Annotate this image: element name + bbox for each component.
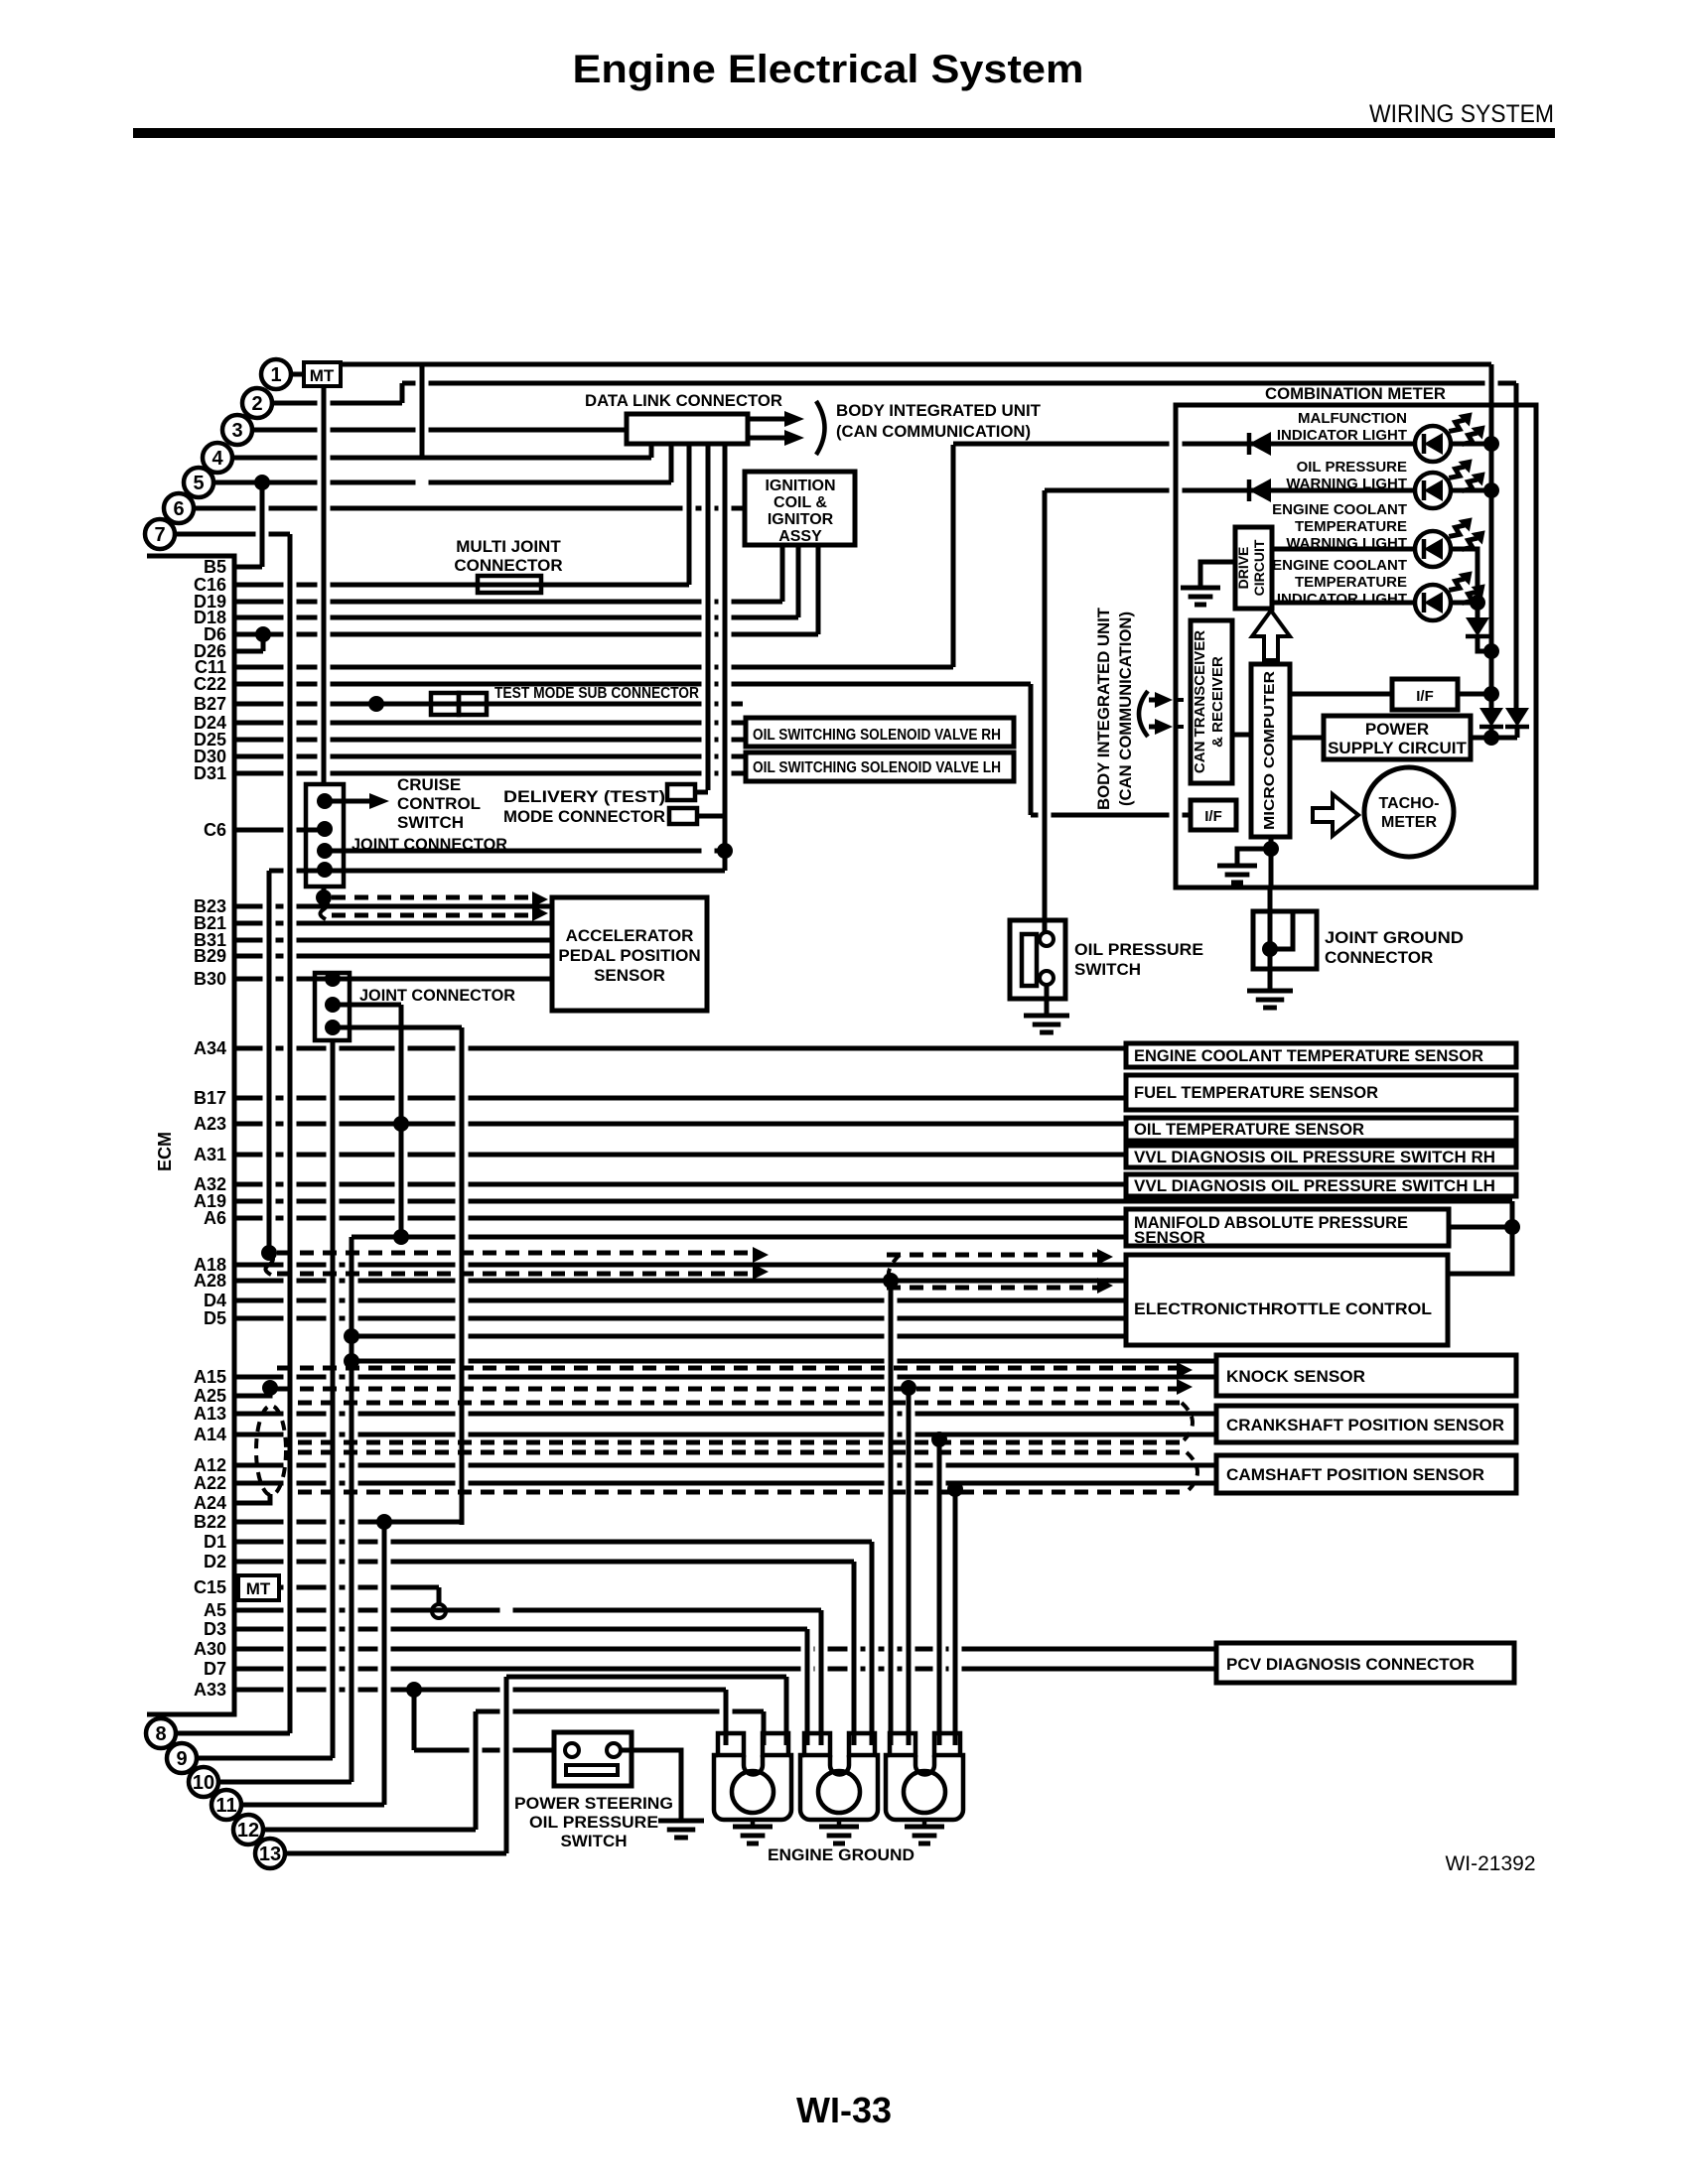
node junction joint ground: [1262, 941, 1278, 957]
wire joint ground feed: [1268, 887, 1273, 949]
svg-text:PEDAL POSITION: PEDAL POSITION: [558, 946, 700, 965]
arrow DLC-BIU 2: [784, 430, 804, 446]
wire circle2 riser: [400, 383, 405, 403]
ground engine ground connector 1 ground: [733, 1827, 773, 1843]
wire D31: [234, 771, 746, 776]
wire meter bus mid: [1489, 444, 1494, 705]
wire malfunction light wire: [953, 442, 1415, 447]
svg-text:DELIVERY (TEST): DELIVERY (TEST): [503, 787, 665, 806]
wire D18: [234, 615, 798, 620]
svg-text:A5: A5: [204, 1600, 226, 1620]
svg-text:ELECTRONICTHROTTLE CONTROL: ELECTRONICTHROTTLE CONTROL: [1134, 1299, 1432, 1318]
svg-text:D3: D3: [204, 1619, 226, 1639]
svg-text:VVL DIAGNOSIS OIL PRESSURE SWI: VVL DIAGNOSIS OIL PRESSURE SWITCH RH: [1134, 1148, 1495, 1166]
engine ground connector 3: [886, 1733, 963, 1820]
wire bus B22 to circle11: [382, 1522, 387, 1805]
wire D1: [234, 1540, 872, 1545]
wire cam shield drain: [953, 1489, 958, 1745]
delivery mode connector pin 2: [669, 808, 697, 824]
arrow ETC shield top: [1097, 1249, 1113, 1265]
wire A22: [234, 1481, 1216, 1486]
engine ground connector 2: [800, 1733, 878, 1820]
delivery mode connector pin 1: [667, 784, 695, 800]
arrow knock shield top: [1177, 1362, 1193, 1378]
svg-text:SENSOR: SENSOR: [594, 966, 665, 985]
wire ect led riser: [1476, 594, 1480, 617]
wire wire circle 9: [197, 1756, 333, 1761]
svg-text:IGNITION: IGNITION: [765, 478, 835, 494]
hollow arrow to tachometer: [1313, 794, 1358, 836]
svg-text:BODY INTEGRATED UNIT: BODY INTEGRATED UNIT: [1094, 607, 1113, 810]
wire B30: [234, 977, 552, 982]
wire drive circuit ground leg: [1200, 562, 1235, 588]
wire bus2 diode stub: [1515, 708, 1520, 710]
node knock shield drain node: [901, 1380, 916, 1396]
wire A25 shield hook: [266, 1389, 270, 1396]
manifold absolute pressure sensor: [1126, 1209, 1449, 1246]
wire D6: [234, 632, 818, 637]
wire A24 shield hook: [266, 1494, 270, 1503]
wire CAN stub 1: [1176, 698, 1191, 702]
wire circle1-MT stub: [291, 372, 304, 377]
wire ect diode to bus: [1477, 638, 1491, 651]
oil switching solenoid valve LH: [746, 752, 1014, 781]
wire A12: [234, 1463, 1216, 1468]
svg-text:A6: A6: [204, 1208, 226, 1228]
node junction meter bus 1: [1483, 436, 1499, 452]
wire DLC pin b: [687, 444, 692, 585]
svg-text:A34: A34: [194, 1038, 226, 1058]
node ps switch terminal 1 (open): [565, 1743, 579, 1757]
wire D1 drop: [870, 1542, 875, 1745]
node junction meter bus 2: [1483, 482, 1499, 498]
svg-text:C6: C6: [204, 820, 226, 840]
node junction A23: [393, 1116, 409, 1132]
wire circle4 riser: [420, 364, 425, 458]
svg-text:SWITCH: SWITCH: [560, 1832, 627, 1850]
wire wire circle 10: [218, 1780, 352, 1785]
svg-text:D5: D5: [204, 1308, 226, 1328]
wire A14: [234, 1433, 1216, 1437]
ground engine ground connector 3 ground: [905, 1827, 944, 1843]
svg-text:MT: MT: [310, 366, 335, 385]
svg-text:CAN TRANSCEIVER: CAN TRANSCEIVER: [1192, 630, 1208, 773]
arrow CAN 2: [1155, 719, 1173, 735]
svg-text:Engine Electrical System: Engine Electrical System: [573, 48, 1084, 91]
fuel temperature sensor: [1126, 1075, 1516, 1110]
arrow B23 shield bottom end: [532, 905, 548, 921]
wire A15: [234, 1375, 1216, 1380]
wire A13: [234, 1412, 1216, 1417]
wire D3 drop: [805, 1629, 810, 1745]
wire D25: [234, 738, 746, 743]
wire wire circle 11: [241, 1803, 384, 1808]
ground engine ground connector 2 ground: [819, 1827, 859, 1843]
svg-text:POWER STEERING: POWER STEERING: [514, 1794, 673, 1813]
header rule: [133, 128, 1555, 138]
arrow to cruise control switch: [369, 793, 389, 809]
svg-text:PCV DIAGNOSIS CONNECTOR: PCV DIAGNOSIS CONNECTOR: [1226, 1655, 1475, 1674]
node JC2 dot 2: [325, 997, 341, 1013]
accelerator pedal position sensor: [552, 897, 707, 1011]
svg-text:A22: A22: [194, 1473, 226, 1493]
svg-text:OIL SWITCHING SOLENOID VALVE R: OIL SWITCHING SOLENOID VALVE RH: [753, 727, 1001, 744]
node connector 4: [203, 443, 232, 473]
VVL diagnosis oil pressure switch RH: [1126, 1146, 1516, 1167]
wire A31: [234, 1153, 1126, 1158]
wire bus JC1 dot3 left leg: [267, 871, 272, 1253]
wire CAN stub 2: [1176, 725, 1191, 729]
wire JC2 dot3 wire: [333, 1025, 462, 1030]
wire A5 drop: [819, 1610, 824, 1745]
wire ect warning wire: [1272, 547, 1415, 552]
BIU bracket arc: [816, 401, 825, 455]
wire wire ETC aux: [352, 1334, 1126, 1339]
oil temperature sensor: [1126, 1118, 1516, 1141]
joint connector 1: [306, 784, 344, 887]
wire D5: [234, 1316, 1126, 1321]
wire power steering feed: [414, 1748, 556, 1753]
wire JC2 dot2 wire: [333, 1003, 401, 1008]
wire JC1 dot2 wire: [325, 849, 725, 854]
wire ETC shield top (shield dash): [887, 1253, 1097, 1258]
wire oil pressure warning wire: [1045, 488, 1415, 493]
node junction B5/circle5: [254, 475, 270, 490]
svg-text:WI-21392: WI-21392: [1445, 1852, 1535, 1875]
svg-text:OIL PRESSURE: OIL PRESSURE: [1074, 940, 1203, 959]
wire power supply to bus: [1471, 736, 1517, 741]
wire A28: [234, 1279, 1126, 1284]
wire D2 drop: [852, 1562, 857, 1745]
node junction delivery riser: [717, 843, 733, 859]
svg-text:CRUISE: CRUISE: [397, 775, 461, 794]
svg-text:KNOCK SENSOR: KNOCK SENSOR: [1226, 1367, 1365, 1386]
svg-text:A25: A25: [194, 1386, 226, 1406]
wire joint ground lower leg: [1268, 949, 1273, 991]
wire wire to MAP pin2: [352, 1235, 1126, 1240]
combination meter: [1176, 405, 1536, 887]
wire B21: [234, 921, 552, 926]
svg-text:CIRCUIT: CIRCUIT: [1251, 539, 1267, 596]
svg-text:ECM: ECM: [155, 1132, 175, 1171]
ps switch contact bar: [566, 1765, 618, 1775]
wire bus1 diode stub: [1489, 694, 1494, 708]
diode meter diode 5: [1505, 708, 1529, 727]
wire crank shield drain: [937, 1439, 942, 1745]
svg-text:7: 7: [154, 524, 165, 546]
svg-text:OIL PRESSURE: OIL PRESSURE: [1297, 459, 1407, 476]
svg-text:MT: MT: [246, 1579, 271, 1598]
node JC1 dot 2: [317, 821, 333, 837]
svg-text:A31: A31: [194, 1145, 226, 1164]
svg-text:CONTROL: CONTROL: [397, 794, 481, 813]
wire top bus 1 (MT to meter): [341, 362, 1491, 367]
wire bus JC2 to circle9: [331, 1040, 336, 1758]
wire DLC pin a1: [649, 444, 654, 458]
LED engine coolant temperature indicator light: [1415, 566, 1490, 620]
wire C22: [234, 682, 1031, 687]
svg-text:4: 4: [211, 448, 223, 470]
wire A30: [234, 1647, 1216, 1652]
wire wire circle 8: [176, 1731, 290, 1736]
node junction meter bus 4: [1483, 686, 1499, 702]
oil pressure switch: [1010, 920, 1065, 999]
MT connector (bottom): [238, 1575, 279, 1600]
wire D2: [234, 1560, 854, 1565]
svg-text:SENSOR: SENSOR: [1134, 1228, 1205, 1247]
wire CAN to micro stub: [1232, 733, 1251, 738]
svg-text:12: 12: [237, 1820, 259, 1842]
wire CAN arrow stub 1: [1149, 698, 1155, 703]
node connector 13: [255, 1839, 285, 1868]
node junction MAP wire: [393, 1229, 409, 1245]
wire ect indicator wire: [1272, 601, 1415, 606]
svg-text:ACCELERATOR: ACCELERATOR: [566, 926, 694, 945]
wire wire circle 12: [263, 1828, 476, 1833]
svg-text:10: 10: [193, 1772, 214, 1794]
camshaft position sensor: [1216, 1455, 1516, 1493]
wire A18 shield top (shield dash): [277, 1251, 753, 1256]
wire wire circle 3: [252, 428, 627, 433]
wire C11: [234, 665, 953, 670]
cam shield right arc: [1187, 1452, 1197, 1492]
wire A25: [234, 1394, 266, 1399]
svg-text:COIL &: COIL &: [774, 494, 827, 511]
LED malfunction indicator light: [1415, 407, 1490, 462]
svg-text:JOINT GROUND: JOINT GROUND: [1325, 928, 1464, 947]
wire crank shield bottom (shield dash): [298, 1440, 1182, 1445]
svg-text:BODY INTEGRATED UNIT: BODY INTEGRATED UNIT: [836, 401, 1042, 420]
LED oil pressure warning light: [1415, 454, 1490, 508]
wire ETC shield bottom (shield dash): [887, 1286, 1097, 1291]
svg-text:ENGINE COOLANT TEMPERATURE SEN: ENGINE COOLANT TEMPERATURE SENSOR: [1134, 1046, 1483, 1065]
node JC1 dot 4: [317, 862, 333, 878]
data link connector: [627, 414, 748, 444]
wire wire circle 2: [272, 401, 402, 406]
wire top bus 2 (circle2 to meter): [402, 381, 1516, 386]
wire A33: [234, 1688, 726, 1693]
svg-text:8: 8: [155, 1723, 166, 1745]
knock sensor: [1216, 1355, 1516, 1396]
wire meter bus 656-699: [1489, 651, 1494, 694]
node cam shield drain node: [947, 1481, 963, 1497]
wire wire circle 6: [194, 506, 745, 511]
crankshaft position sensor: [1216, 1406, 1516, 1442]
svg-text:POWER: POWER: [1365, 720, 1429, 739]
svg-text:1: 1: [270, 364, 281, 386]
svg-text:A12: A12: [194, 1455, 226, 1475]
wire ignition pin 1: [780, 545, 785, 602]
svg-text:D2: D2: [204, 1552, 226, 1571]
svg-text:D1: D1: [204, 1532, 226, 1552]
wire DLC pin d: [723, 444, 728, 871]
wire joint ground hook: [1270, 911, 1293, 949]
svg-text:A23: A23: [194, 1114, 226, 1134]
wire D19: [234, 600, 782, 605]
engine ground connector 1: [714, 1733, 791, 1820]
BIU CAN bracket arc: [1139, 691, 1148, 737]
wire bus circle7-circle8: [288, 534, 293, 1733]
node A25 shield node: [262, 1380, 278, 1396]
wire meter feed riser 2: [1514, 383, 1519, 710]
node junction B27: [368, 696, 384, 712]
svg-text:(CAN COMMUNICATION): (CAN COMMUNICATION): [1116, 612, 1135, 806]
wire circle 13 jog: [506, 1675, 786, 1680]
wire B22: [234, 1520, 462, 1525]
wire wire knock aux: [352, 1359, 1216, 1364]
svg-text:SWITCH: SWITCH: [1074, 960, 1141, 979]
node connector 7: [145, 519, 175, 549]
I/F (left): [1191, 800, 1236, 830]
svg-text:A33: A33: [194, 1680, 226, 1700]
svg-text:A30: A30: [194, 1639, 226, 1659]
svg-text:JOINT CONNECTOR: JOINT CONNECTOR: [359, 986, 515, 1005]
wire C15 to MT: [234, 1585, 238, 1590]
node crank shield drain node: [931, 1432, 947, 1447]
wire D7: [234, 1667, 1216, 1672]
wire A18 shield bottom (shield dash): [277, 1272, 753, 1277]
wire malfunction light wire right: [1451, 442, 1491, 447]
wire DLC to BIU arrow 2: [748, 436, 784, 441]
MT connector (top): [304, 362, 341, 386]
svg-text:METER: METER: [1381, 814, 1437, 831]
svg-text:TACHO-: TACHO-: [1378, 795, 1439, 812]
wire A24: [234, 1501, 266, 1506]
wire B5: [234, 565, 262, 570]
wire cam shield bottom (shield dash): [298, 1490, 1187, 1495]
wire A6: [234, 1216, 1126, 1221]
svg-text:B30: B30: [194, 969, 226, 989]
svg-text:B17: B17: [194, 1088, 226, 1108]
svg-text:ENGINE GROUND: ENGINE GROUND: [768, 1845, 914, 1864]
crank shield right arc: [1182, 1403, 1193, 1442]
joint ground connector: [1253, 911, 1317, 969]
node connector 1: [261, 359, 291, 389]
wire wire circle 7: [175, 532, 290, 537]
svg-text:TEMPERATURE: TEMPERATURE: [1295, 518, 1407, 535]
wire bus JC2 bottom to B22 end: [460, 1027, 465, 1525]
wire C11 riser to meter: [951, 445, 956, 667]
node connector 11: [211, 1790, 241, 1820]
svg-text:TEST MODE SUB CONNECTOR: TEST MODE SUB CONNECTOR: [494, 685, 699, 702]
wire knock shield drain: [907, 1388, 912, 1745]
wire micro to power supply: [1290, 736, 1324, 741]
wire B23 shield bottom (shield dash): [332, 913, 532, 918]
svg-text:CONNECTOR: CONNECTOR: [454, 556, 562, 575]
PCV diagnosis connector: [1216, 1643, 1514, 1683]
wire wire circle 4: [232, 456, 651, 461]
wire bus JC1 center: [322, 887, 327, 889]
svg-text:D4: D4: [204, 1291, 226, 1310]
test mode sub connector cell 1: [431, 693, 459, 715]
wire meter internal ground leg: [1237, 849, 1271, 866]
node junction A28 shield drain: [883, 1273, 899, 1289]
node junction B22: [376, 1514, 392, 1530]
wire D30: [234, 754, 746, 759]
svg-text:B22: B22: [194, 1512, 226, 1532]
wire cam shield top (shield dash): [298, 1450, 1187, 1455]
wire A34: [234, 1046, 1126, 1051]
svg-text:B5: B5: [204, 557, 226, 577]
diode meter diode 3: [1466, 617, 1489, 636]
arrow A18 shield top: [753, 1247, 769, 1263]
node connector 3: [222, 415, 252, 445]
node junction meter bus 3: [1483, 643, 1499, 659]
wire wire circle 13: [285, 1851, 506, 1856]
oil switching solenoid valve RH: [746, 718, 1014, 747]
svg-text:13: 13: [259, 1843, 281, 1865]
svg-text:I/F: I/F: [1204, 808, 1222, 825]
svg-text:11: 11: [215, 1795, 236, 1817]
wire D24: [234, 721, 746, 726]
node JC1 dot 3: [317, 843, 333, 859]
wire oil pressure switch riser: [1043, 490, 1048, 934]
node connector 10: [189, 1767, 218, 1797]
ground power steering ground: [658, 1821, 704, 1838]
wire engine ground connector 2 ground stem: [837, 1820, 842, 1827]
node junction D6/D26: [255, 626, 271, 642]
svg-text:A15: A15: [194, 1367, 226, 1387]
svg-text:A28: A28: [194, 1271, 226, 1291]
wire C6: [234, 828, 325, 833]
node junction A19/MAP: [1504, 1219, 1520, 1235]
svg-text:B29: B29: [194, 946, 226, 966]
node A18 shield node: [261, 1245, 277, 1261]
ground joint ground: [1247, 991, 1293, 1008]
engine coolant temperature sensor: [1126, 1043, 1516, 1067]
wire C15: [279, 1585, 439, 1590]
svg-text:OIL PRESSURE: OIL PRESSURE: [529, 1813, 658, 1832]
wire power steering feed riser: [412, 1690, 417, 1750]
svg-text:A24: A24: [194, 1493, 226, 1513]
oil pressure switch contact bar: [1022, 934, 1037, 986]
wire ps switch ground leg: [621, 1750, 681, 1821]
arrow ETC shield bottom: [1097, 1278, 1113, 1294]
svg-text:FUEL TEMPERATURE SENSOR: FUEL TEMPERATURE SENSOR: [1134, 1083, 1378, 1102]
wire delivery pin2 stub: [697, 814, 725, 819]
ETC shield left arc: [889, 1255, 900, 1281]
node junction micro ground: [1263, 841, 1279, 857]
diode meter diode 4: [1479, 708, 1503, 727]
node oil pressure switch terminal 1 (open): [1040, 932, 1054, 946]
wire A32: [234, 1182, 1126, 1187]
wire circle 12 riser: [474, 1711, 479, 1830]
node JC1 dot 1: [317, 793, 333, 809]
svg-text:D31: D31: [194, 763, 226, 783]
wire bus JC2 mid: [399, 1005, 404, 1237]
power supply circuit: [1324, 716, 1471, 759]
wire C16: [234, 583, 689, 588]
svg-text:3: 3: [231, 420, 242, 442]
diode meter diode 2: [1249, 478, 1271, 502]
svg-text:5: 5: [193, 473, 204, 494]
wire C15 drop: [437, 1587, 442, 1604]
svg-text:MULTI JOINT: MULTI JOINT: [456, 537, 561, 556]
wire circle 13 riser: [504, 1677, 509, 1853]
B23 shield drain squiggle: [320, 897, 328, 919]
drive circuit: [1235, 527, 1272, 609]
svg-text:INDICATOR LIGHT: INDICATOR LIGHT: [1277, 427, 1407, 444]
ground oil pressure switch ground: [1024, 1016, 1069, 1032]
wire engine ground connector 3 ground stem: [922, 1820, 927, 1827]
A18 shield squiggle: [265, 1253, 273, 1275]
node ps switch terminal 2 (open): [607, 1743, 621, 1757]
node connector 5: [184, 468, 213, 497]
node JC2 dot 3: [325, 1020, 341, 1035]
wire engine ground connector 1 ground stem: [751, 1820, 756, 1827]
electronic throttle control: [1126, 1255, 1448, 1345]
svg-text:& RECEIVER: & RECEIVER: [1209, 656, 1226, 748]
